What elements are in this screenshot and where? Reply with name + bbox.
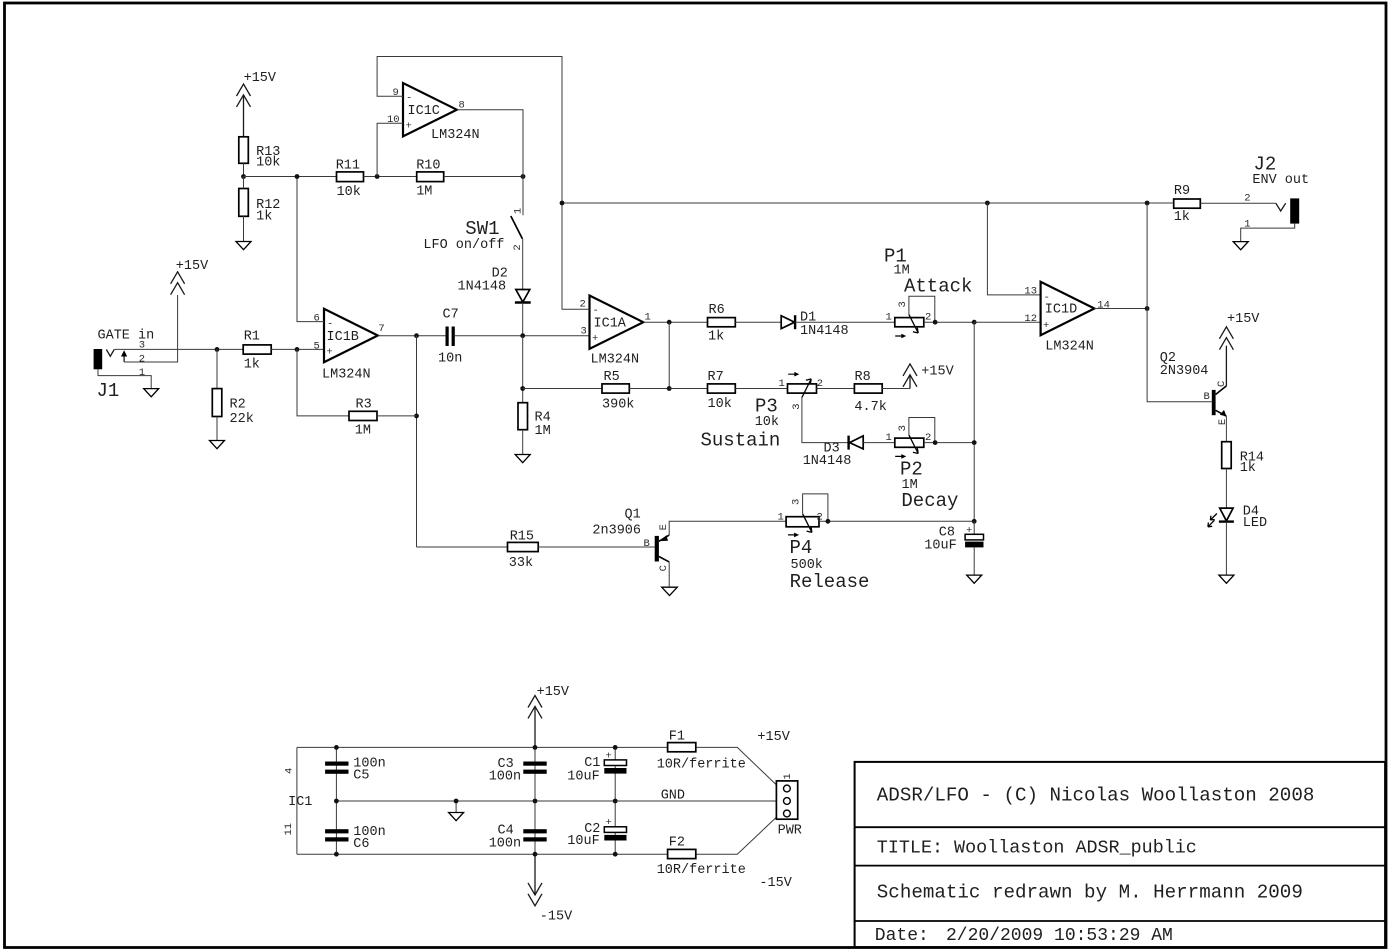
wire R15 to Q1 base: [538, 546, 655, 548]
wire R1 to IC1B pin5: [271, 348, 324, 350]
wire GATE row: [114, 348, 243, 350]
wire R10 right to SW node: [444, 176, 523, 178]
svg-text:GATE in: GATE in: [98, 328, 155, 343]
op-amp IC1D: [1024, 282, 1110, 355]
ferrite F1: [657, 729, 746, 772]
wire R13 to node: [243, 163, 245, 176]
svg-text:10uF: 10uF: [567, 834, 599, 849]
svg-text:390k: 390k: [602, 397, 634, 412]
svg-text:10k: 10k: [708, 397, 732, 412]
wire -15V rail: [297, 817, 777, 854]
svg-text:J1: J1: [97, 380, 120, 402]
svg-text:+: +: [592, 333, 598, 345]
wire R11-R10: [364, 176, 417, 178]
svg-text:LM324N: LM324N: [591, 352, 640, 367]
svg-text:LM324N: LM324N: [431, 128, 480, 143]
svg-text:10k: 10k: [755, 415, 779, 430]
resistor R8: [854, 370, 886, 415]
svg-text:3: 3: [791, 499, 803, 505]
diode D2 1N4148: [458, 266, 531, 302]
svg-text:1N4148: 1N4148: [803, 454, 852, 469]
wire node down to R5 row: [522, 336, 524, 403]
svg-text:ENV out: ENV out: [1252, 173, 1309, 188]
resistor R5: [602, 370, 634, 412]
svg-text:1k: 1k: [256, 210, 272, 225]
ground J2: [1233, 242, 1248, 250]
wire LFO row y203: [562, 202, 1174, 204]
svg-text:3: 3: [581, 326, 587, 338]
wire J1 pin2 pullup: [124, 295, 178, 362]
svg-text:R8: R8: [855, 370, 871, 385]
svg-text:Date:: Date:: [875, 926, 929, 946]
node R4/R5: [520, 386, 525, 391]
svg-text:1: 1: [886, 312, 892, 324]
resistor R11: [336, 158, 364, 199]
svg-text:F1: F1: [669, 729, 685, 744]
svg-text:+: +: [406, 121, 412, 133]
svg-text:Q1: Q1: [625, 507, 641, 522]
wire IC1D output: [1094, 308, 1147, 310]
wire IC1C pin10: [377, 123, 403, 176]
title block: [855, 762, 1386, 947]
wire R3 right: [377, 415, 417, 417]
svg-text:11: 11: [283, 823, 295, 836]
svg-text:F2: F2: [669, 836, 685, 851]
svg-text:1M: 1M: [535, 424, 551, 439]
svg-text:1k: 1k: [1174, 210, 1190, 225]
svg-text:+15V: +15V: [537, 685, 570, 700]
wire IC1B pin6 from divider: [297, 177, 324, 322]
svg-text:R5: R5: [604, 370, 620, 385]
wire output vertical to Q2 base: [1147, 203, 1212, 402]
node IC1B out / feedback: [414, 333, 419, 338]
wire R9 to J2: [1200, 202, 1276, 204]
+15V arrow (divider top): [237, 71, 277, 137]
svg-text:C6: C6: [353, 837, 369, 852]
ground D4: [1219, 575, 1234, 583]
wire R7 left: [669, 388, 707, 390]
svg-text:6: 6: [314, 313, 320, 325]
resistor R7: [708, 370, 736, 412]
wire Q2 emitter to R14: [1225, 416, 1227, 442]
wire IC1C pin9 feedback: [377, 57, 562, 204]
svg-text:R3: R3: [356, 398, 372, 413]
wire C5/C6 branch: [335, 747, 337, 854]
svg-text:2: 2: [1244, 192, 1250, 204]
svg-text:3: 3: [791, 403, 803, 409]
svg-text:1M: 1M: [355, 424, 371, 439]
svg-text:2/20/2009 10:53:29 AM: 2/20/2009 10:53:29 AM: [946, 926, 1173, 946]
svg-text:IC1C: IC1C: [408, 104, 440, 119]
svg-text:4: 4: [284, 768, 296, 774]
capacitor C1 (polarized): [567, 750, 626, 784]
svg-text:4.7k: 4.7k: [854, 400, 886, 415]
resistor R6: [708, 303, 736, 345]
diode D1 1N4148: [781, 310, 848, 339]
svg-text:13: 13: [1024, 285, 1037, 297]
svg-text:Schematic redrawn by M. Herrma: Schematic redrawn by M. Herrmann 2009: [877, 882, 1303, 904]
svg-text:10k: 10k: [337, 185, 361, 200]
svg-text:10: 10: [387, 114, 400, 126]
op-amp IC1B: [314, 309, 385, 383]
wire C3/C4 branch: [534, 747, 536, 854]
svg-text:R15: R15: [510, 530, 534, 545]
svg-text:100n: 100n: [489, 769, 521, 784]
wire D1 to P1: [795, 321, 895, 323]
svg-text:TITLE: Woollaston ADSR_public: TITLE: Woollaston ADSR_public: [877, 838, 1197, 859]
svg-text:-: -: [1044, 292, 1050, 304]
potentiometer P2 Decay: [886, 418, 959, 513]
svg-text:1k: 1k: [244, 358, 260, 373]
svg-text:C: C: [658, 565, 670, 571]
wire P3 pin2 to R8: [817, 388, 855, 390]
svg-text:-: -: [593, 305, 599, 317]
svg-text:10R/ferrite: 10R/ferrite: [657, 863, 746, 878]
svg-text:C7: C7: [443, 308, 459, 323]
svg-text:R10: R10: [416, 158, 440, 173]
svg-text:1: 1: [886, 432, 892, 444]
svg-text:LED: LED: [1243, 516, 1267, 531]
svg-text:10R/ferrite: 10R/ferrite: [657, 758, 746, 773]
wire R12 legs: [243, 177, 245, 189]
diode D3 1N4148: [803, 436, 864, 470]
svg-text:R2: R2: [230, 398, 246, 413]
ground R12: [236, 242, 251, 250]
svg-text:10k: 10k: [256, 156, 280, 171]
power section: [283, 685, 802, 924]
svg-text:+15V: +15V: [921, 365, 954, 380]
svg-text:LM324N: LM324N: [1045, 340, 1094, 355]
ground Q1: [662, 587, 678, 595]
wire J1 pin1 to ground: [98, 369, 151, 388]
capacitor C5: [325, 756, 386, 783]
svg-text:1k: 1k: [708, 329, 724, 344]
svg-text:Release: Release: [790, 571, 870, 593]
resistor R4: [518, 403, 551, 439]
svg-text:LFO on/off: LFO on/off: [423, 238, 504, 253]
wire P2 to vertical: [924, 442, 974, 444]
resistor R12: [239, 189, 281, 225]
middle section: [438, 203, 1041, 521]
ground R2: [210, 441, 225, 449]
resistor R3: [349, 398, 377, 439]
svg-text:+: +: [606, 817, 612, 829]
wire R2 branch: [216, 349, 218, 388]
svg-text:PWR: PWR: [778, 824, 802, 839]
svg-text:+: +: [966, 525, 972, 537]
connector PWR: [776, 773, 802, 838]
capacitor C6: [325, 825, 386, 852]
svg-text:1: 1: [512, 208, 524, 214]
svg-text:ADSR/LFO - (C) Nicolas Woollas: ADSR/LFO - (C) Nicolas Woollaston 2008: [877, 785, 1315, 807]
transistor Q2 2N3904: [1160, 351, 1229, 425]
ferrite F2: [657, 836, 746, 878]
svg-text:P4: P4: [790, 537, 813, 559]
svg-text:R11: R11: [336, 158, 360, 173]
right / output section: [417, 154, 1310, 596]
svg-text:1N4148: 1N4148: [458, 280, 507, 295]
node R2 tap: [215, 347, 220, 352]
wire R14 to D4: [1225, 469, 1227, 509]
wire P1 to attack node: [924, 321, 974, 323]
svg-text:33k: 33k: [509, 556, 533, 571]
resistor R14: [1222, 442, 1264, 476]
wire C8 to ground: [973, 547, 975, 575]
svg-text:R7: R7: [708, 370, 724, 385]
svg-text:Decay: Decay: [901, 490, 958, 512]
svg-text:2N3904: 2N3904: [1160, 364, 1209, 379]
node SW1 top: [521, 174, 526, 179]
svg-text:-15V: -15V: [540, 909, 573, 924]
svg-text:GND: GND: [661, 789, 685, 804]
wire R2 to ground: [216, 417, 218, 441]
wire to IC1D pin12: [974, 321, 1040, 323]
wire R7 to P3: [735, 388, 787, 390]
svg-text:22k: 22k: [230, 412, 254, 427]
wire Q1 emitter to release row: [669, 521, 786, 535]
capacitor C3: [489, 757, 547, 785]
capacitor C8 (polarized): [924, 521, 983, 553]
potentiometer P3 Sustain: [701, 372, 849, 452]
svg-text:R9: R9: [1174, 184, 1190, 199]
resistor R9: [1174, 184, 1201, 225]
wire D3 to P2: [863, 442, 895, 444]
wire R5 right: [629, 388, 669, 390]
wire IC1A output: [643, 321, 707, 323]
svg-text:E: E: [1217, 419, 1229, 425]
+15V power arrow: [528, 685, 570, 747]
wire J2 pin1 to ground: [1241, 224, 1295, 242]
capacitor C7: [438, 308, 462, 367]
switch SW1: [423, 208, 524, 253]
wire R6 to D1: [735, 321, 781, 323]
svg-text:D1: D1: [800, 310, 816, 325]
svg-text:B: B: [644, 538, 650, 550]
resistor R13: [239, 137, 281, 171]
wire to IC1D pin13: [987, 203, 1040, 295]
wire P4 to C8: [819, 520, 974, 522]
+15V arrow (R8): [903, 364, 955, 389]
transistor Q1 2n3906: [592, 507, 670, 571]
svg-text:1: 1: [778, 512, 784, 524]
svg-text:1M: 1M: [416, 185, 432, 200]
potentiometer P4 Release: [778, 494, 870, 593]
wire SW1 pin1 stub: [522, 177, 524, 216]
ground R4: [515, 455, 530, 463]
node R3 right: [414, 414, 419, 419]
capacitor C2 (polarized): [567, 817, 626, 849]
op-amp IC1A: [580, 296, 651, 368]
svg-text:E: E: [658, 524, 670, 530]
svg-text:+: +: [327, 347, 333, 359]
svg-text:12: 12: [1024, 313, 1037, 325]
capacitor C4: [489, 824, 547, 852]
svg-text:2n3906: 2n3906: [592, 523, 641, 538]
svg-text:-: -: [327, 319, 333, 331]
svg-text:Attack: Attack: [904, 276, 972, 298]
wire +15V rail: [297, 747, 777, 785]
svg-text:-: -: [406, 93, 412, 105]
resistor R2: [212, 389, 254, 427]
resistor R1: [243, 330, 271, 373]
LED D4: [1208, 504, 1267, 531]
svg-text:IC1D: IC1D: [1045, 303, 1077, 318]
svg-text:1k: 1k: [1240, 461, 1256, 476]
svg-text:+15V: +15V: [244, 71, 277, 86]
wire IC1C output: [457, 110, 523, 177]
svg-text:9: 9: [393, 87, 399, 99]
wire Q2 collector to +15V: [1225, 346, 1227, 386]
wire Q1 collector to ground: [668, 562, 670, 587]
svg-text:1: 1: [779, 378, 785, 390]
svg-text:10uF: 10uF: [567, 769, 599, 784]
ground (mid rail): [449, 801, 464, 821]
junction dots power rails: [334, 745, 339, 750]
svg-text:B: B: [1204, 391, 1210, 403]
-15V power arrow: [528, 854, 573, 924]
connector J2 ENV out: [1244, 154, 1309, 231]
resistor R10: [416, 158, 444, 199]
svg-text:+15V: +15V: [1227, 312, 1260, 327]
wire R15 left leg: [417, 546, 508, 548]
svg-text:+: +: [606, 750, 612, 762]
op-amp IC1C: [387, 83, 480, 143]
svg-text:10n: 10n: [438, 352, 462, 367]
wire C7 to IC1A pin3: [455, 335, 590, 337]
svg-text:1: 1: [782, 773, 794, 779]
left / input section: [94, 57, 562, 548]
wire IC1A pin2 from LFO node: [562, 203, 590, 309]
IC1 power bracket pins 4 and 11: [296, 747, 298, 854]
svg-text:IC1: IC1: [288, 795, 312, 810]
svg-text:C5: C5: [353, 769, 369, 784]
svg-text:2: 2: [139, 354, 145, 366]
wire vertical attack to P2 to C8: [973, 322, 975, 521]
node out/R5: [667, 320, 672, 325]
wire R8 to +15V: [882, 388, 910, 390]
wire R4 to ground: [522, 430, 524, 455]
svg-text:7: 7: [378, 323, 384, 335]
wire SW1 pin2 to D2: [522, 239, 524, 290]
node to IC1B pin6: [295, 174, 300, 179]
svg-text:R1: R1: [244, 330, 260, 345]
wire IC1B output: [378, 335, 446, 337]
svg-text:R6: R6: [709, 303, 725, 318]
resistor R15: [508, 530, 539, 571]
svg-text:100n: 100n: [489, 837, 521, 852]
+15V arrow (Q2): [1219, 312, 1260, 350]
wire feedback down: [416, 336, 418, 547]
svg-text:3: 3: [897, 425, 909, 431]
wire D4 to ground: [1225, 522, 1227, 576]
wire divider row: [244, 176, 337, 178]
svg-text:Sustain: Sustain: [701, 430, 781, 452]
svg-text:IC1A: IC1A: [594, 316, 627, 331]
wire C1/C2 branch: [614, 747, 616, 854]
svg-text:3: 3: [897, 301, 909, 307]
node pin10: [375, 174, 380, 179]
node pin5 / R3: [295, 347, 300, 352]
node C7/D2/R4: [520, 333, 525, 338]
svg-text:+15V: +15V: [757, 730, 790, 745]
potentiometer P1 Attack: [884, 245, 972, 338]
svg-text:1: 1: [139, 367, 145, 379]
svg-text:14: 14: [1097, 299, 1110, 311]
svg-text:+15V: +15V: [176, 259, 209, 274]
ground J1: [144, 389, 159, 397]
wire GND rail: [336, 800, 776, 802]
svg-text:10uF: 10uF: [924, 538, 956, 553]
wire D2 to signal node: [522, 303, 524, 336]
svg-text:5: 5: [314, 341, 320, 353]
wire R3 left leg: [297, 349, 349, 416]
node divider: [241, 174, 246, 179]
svg-text:1N4148: 1N4148: [800, 324, 849, 339]
svg-text:IC1B: IC1B: [327, 330, 359, 345]
svg-text:+: +: [1043, 320, 1049, 332]
ground C8: [967, 575, 982, 583]
svg-text:2: 2: [580, 299, 586, 311]
+15V arrow (gate pullup): [171, 259, 210, 295]
wire R5 left: [523, 388, 602, 390]
wire out to R5/R7 node: [668, 322, 670, 388]
svg-text:-15V: -15V: [759, 876, 792, 891]
svg-text:LM324N: LM324N: [322, 368, 371, 383]
connector J1 GATE in: [94, 328, 155, 402]
svg-text:SW1: SW1: [465, 218, 499, 240]
node attack/decay vertical: [972, 320, 977, 325]
